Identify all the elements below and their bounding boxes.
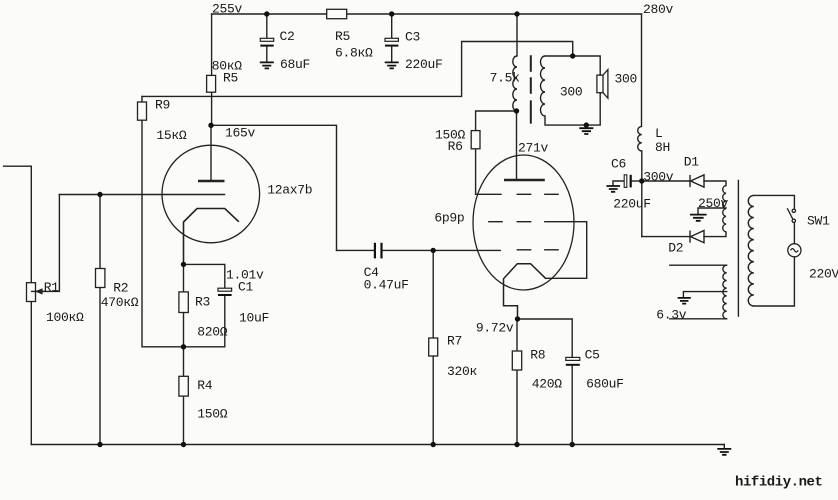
svg-text:300: 300	[615, 72, 638, 87]
svg-text:220V: 220V	[809, 267, 838, 282]
svg-text:420Ω: 420Ω	[532, 377, 563, 392]
svg-text:165v: 165v	[225, 126, 256, 141]
svg-text:R6: R6	[448, 139, 463, 154]
svg-text:280v: 280v	[643, 2, 674, 17]
svg-text:9.72v: 9.72v	[476, 321, 514, 336]
svg-text:D1: D1	[684, 155, 700, 170]
svg-text:C5: C5	[585, 348, 600, 363]
svg-text:300: 300	[560, 85, 583, 100]
svg-text:R3: R3	[195, 295, 210, 310]
svg-text:C6: C6	[611, 157, 626, 172]
svg-text:470кΩ: 470кΩ	[101, 295, 139, 310]
svg-text:D2: D2	[668, 241, 683, 256]
svg-text:hifidiy.net: hifidiy.net	[735, 475, 823, 491]
svg-text:R8: R8	[530, 348, 545, 363]
svg-text:C3: C3	[405, 30, 420, 45]
svg-text:L: L	[655, 126, 663, 141]
svg-text:220uF: 220uF	[405, 57, 443, 72]
svg-text:250v: 250v	[698, 196, 729, 211]
svg-text:12ax7b: 12ax7b	[267, 183, 312, 198]
svg-text:SW1: SW1	[807, 214, 830, 229]
svg-text:R5: R5	[223, 71, 238, 86]
svg-text:7.5k: 7.5k	[490, 71, 521, 86]
svg-text:R5: R5	[335, 29, 350, 44]
svg-text:R4: R4	[197, 378, 213, 393]
svg-text:271v: 271v	[518, 141, 549, 156]
svg-text:150Ω: 150Ω	[197, 407, 228, 422]
svg-text:0.47uF: 0.47uF	[364, 278, 409, 293]
svg-text:6.3v: 6.3v	[656, 308, 687, 323]
svg-text:8H: 8H	[655, 140, 670, 155]
svg-text:C2: C2	[280, 29, 295, 44]
svg-text:R2: R2	[113, 281, 128, 296]
svg-text:300v: 300v	[643, 170, 674, 185]
svg-text:255v: 255v	[212, 2, 243, 17]
svg-text:320к: 320к	[447, 364, 478, 379]
svg-text:15кΩ: 15кΩ	[156, 128, 187, 143]
svg-text:220uF: 220uF	[613, 197, 651, 212]
svg-text:6p9p: 6p9p	[434, 211, 464, 226]
svg-text:R1: R1	[44, 280, 60, 295]
svg-text:6.8кΩ: 6.8кΩ	[335, 46, 373, 61]
svg-text:R9: R9	[155, 98, 170, 113]
svg-text:R7: R7	[447, 334, 462, 349]
svg-text:C1: C1	[238, 280, 254, 295]
svg-text:68uF: 68uF	[280, 57, 310, 72]
svg-text:100кΩ: 100кΩ	[46, 310, 84, 325]
svg-text:680uF: 680uF	[586, 377, 624, 392]
svg-text:820Ω: 820Ω	[197, 325, 228, 340]
svg-text:10uF: 10uF	[239, 311, 269, 326]
